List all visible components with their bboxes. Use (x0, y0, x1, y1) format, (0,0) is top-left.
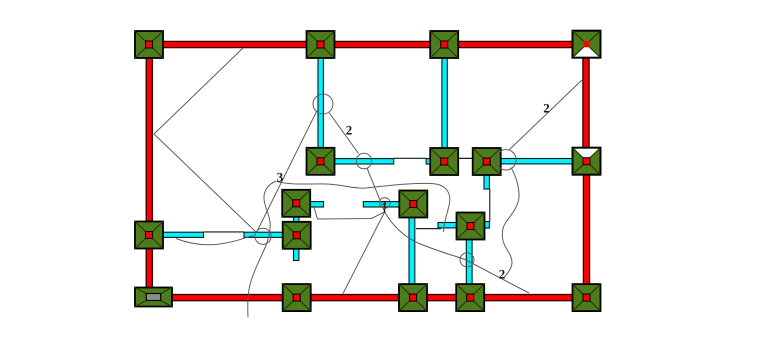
girder left (red beam A1-E1) (146, 45, 152, 288)
leader spline T14 (502, 168, 519, 278)
crossbar H3b stub left of D2 (244, 232, 284, 237)
column D1 (135, 222, 163, 249)
beam edge line V4 to H4 stub (416, 228, 441, 230)
crossbar H1c (cyan beam B3-B4) (500, 159, 573, 164)
crossbar V4 (cyan beam C2-E3) (409, 216, 415, 285)
column D3 (457, 213, 485, 240)
detail circle c1 (313, 94, 333, 114)
arrow at node P (384, 203, 386, 213)
column A4 white bottom quadrant (573, 31, 601, 58)
crossbar H2b stub left of C2 (363, 202, 400, 207)
column B1 (307, 148, 335, 175)
girder right upper (red beam A4-B4) (583, 45, 589, 162)
column B2 (430, 148, 458, 175)
crossbar H1a (cyan beam B1 east) (333, 159, 394, 164)
column D2 (283, 222, 311, 249)
leader line T2 (154, 134, 257, 233)
svg-text:2: 2 (543, 100, 550, 115)
crossbar V6 stub below D2 (294, 248, 299, 261)
crossbar H4 stub left of D3 (438, 223, 458, 228)
leader spline T5 (277, 182, 450, 233)
crossbar V5 (cyan beam D3-E4) (466, 239, 472, 285)
connector line B2-B3 (457, 157, 474, 159)
leader line T7 (510, 79, 584, 150)
crossbar H2a stub right of C1 (310, 202, 324, 207)
svg-text:2: 2 (499, 266, 506, 281)
leader spline T12 (385, 212, 529, 293)
column C2 (399, 191, 427, 218)
column A1 (135, 31, 163, 58)
crossbar H1b stub left of B2 (426, 159, 431, 164)
beam edge line H1 gap (394, 157, 427, 159)
detail circle c6 (496, 150, 516, 170)
svg-text:3: 3 (277, 169, 284, 184)
detail circle c2 (356, 153, 372, 169)
column E2 (283, 284, 311, 311)
crossbar V1 (cyan beam A2-B1) (318, 57, 323, 149)
girder top (red beam A1-A4) (149, 41, 587, 47)
girder bottom (red beam E1-E5) (153, 295, 587, 301)
detail circle c3 (255, 228, 271, 244)
leader line T4b c2 to P (367, 168, 385, 212)
leader line T10 (314, 208, 384, 220)
column A2 (307, 31, 335, 58)
column A3 (430, 31, 458, 58)
column B3 (473, 148, 501, 175)
leader spline T9 (248, 181, 277, 317)
column E3 (399, 284, 427, 311)
girder right lower (red beam B4-E5) (583, 161, 589, 298)
crossbar V7 between C1 and D2 (294, 216, 299, 223)
detail circle c4 (379, 198, 390, 209)
crossbar V3 stub below B3 (484, 174, 489, 189)
leader line T1 (154, 48, 243, 134)
column C1 (282, 190, 310, 217)
leader spline T8 (176, 236, 254, 245)
crossbar H3a (cyan beam D1 east) (163, 232, 204, 237)
beam edge line V3-D3 gap (489, 189, 491, 222)
crossbar stub right of D3 (484, 222, 489, 229)
svg-text:2: 2 (346, 122, 353, 137)
beam edge line H3 gap (204, 231, 245, 233)
detail circle c5 (460, 253, 474, 267)
crossbar V2 (cyan beam A3-B2) (442, 57, 447, 149)
beam end symbol E1 (135, 288, 172, 307)
leader line T11 (343, 212, 385, 294)
column E5 (573, 284, 601, 311)
column E4 (456, 284, 484, 311)
leader line T4a c1 to c2 (329, 113, 359, 154)
leader line T3 (257, 111, 317, 232)
column B4 white top quadrant (573, 148, 601, 175)
